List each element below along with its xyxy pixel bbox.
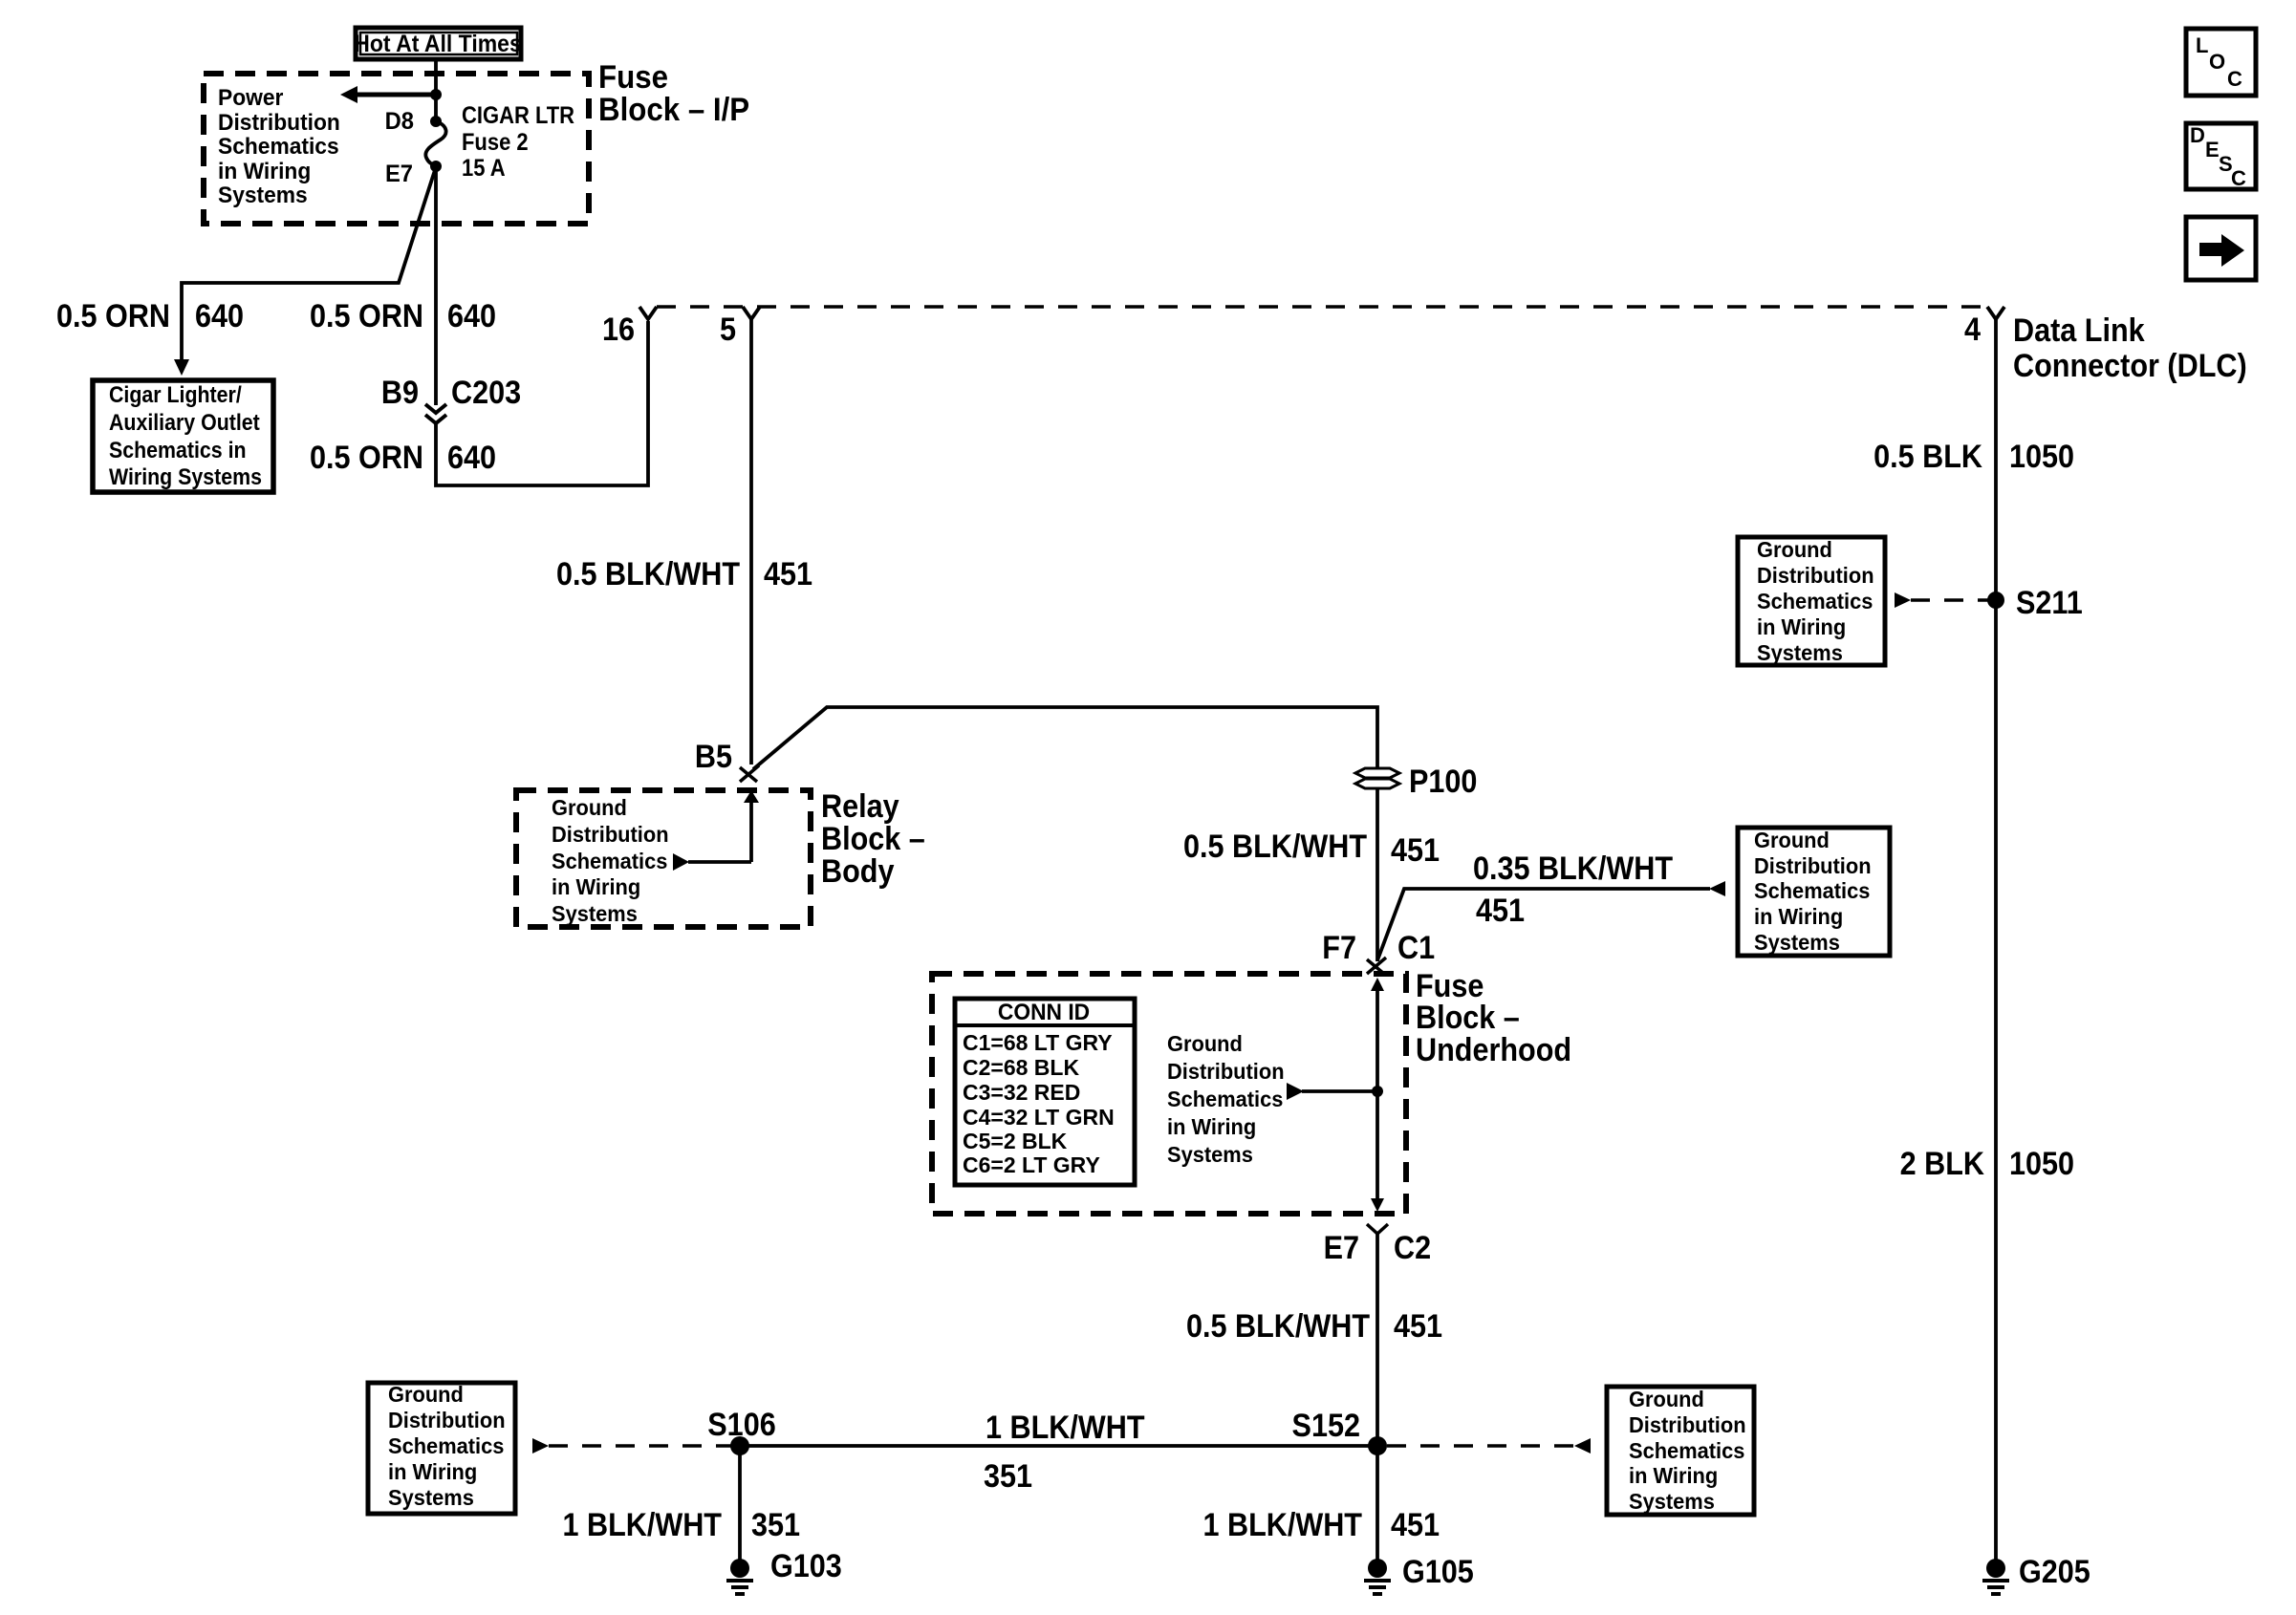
ground distribution reference box (right of 0.35 branch)	[1738, 828, 1890, 956]
text: Ground Distribution Schematics in Wiring Systems (0.35 box)	[1754, 828, 1872, 955]
dashed wire: left box to S106	[549, 1444, 731, 1448]
wire: P100 down to C1	[1375, 788, 1379, 961]
svg-text:Schematics: Schematics	[218, 133, 339, 159]
text: Ground Distribution Schematics in Wiring Systems (left box)	[388, 1382, 506, 1510]
svg-text:O: O	[2209, 50, 2225, 74]
svg-text:C2: C2	[1394, 1230, 1431, 1266]
wire: S106 down to G103	[738, 1446, 742, 1561]
svg-text:Block – I/P: Block – I/P	[598, 91, 749, 128]
junction node on C1 wire	[1372, 1086, 1383, 1097]
pin label 16	[602, 312, 635, 348]
label 1 BLK/WHT (S106-S152)	[986, 1410, 1145, 1446]
svg-text:in Wiring: in Wiring	[218, 158, 311, 183]
wire: 0.35 branch to ground distribution reference	[1377, 889, 1710, 960]
svg-text:Wiring Systems: Wiring Systems	[109, 463, 262, 489]
power distribution reference box (dashed)	[204, 74, 589, 224]
svg-text:Systems: Systems	[552, 901, 638, 926]
jump arrow icon box	[2186, 217, 2256, 280]
svg-text:CONN ID: CONN ID	[998, 999, 1090, 1024]
svg-text:C4=32 LT GRN: C4=32 LT GRN	[963, 1105, 1115, 1130]
svg-text:Cigar Lighter/: Cigar Lighter/	[109, 381, 242, 407]
svg-text:4: 4	[1964, 312, 1981, 348]
svg-text:0.5 BLK: 0.5 BLK	[1874, 439, 1982, 475]
svg-text:Systems: Systems	[1754, 930, 1840, 955]
svg-text:Schematics: Schematics	[1167, 1087, 1283, 1111]
svg-text:Fuse 2: Fuse 2	[462, 129, 529, 156]
svg-text:15 A: 15 A	[462, 155, 506, 182]
svg-text:S211: S211	[2016, 585, 2083, 621]
svg-text:16: 16	[602, 312, 635, 348]
label 0.5 BLK (pin4 wire)	[1874, 439, 1982, 475]
svg-text:Distribution: Distribution	[552, 822, 669, 847]
svg-text:G105: G105	[1402, 1554, 1474, 1590]
svg-text:Body: Body	[821, 853, 894, 890]
CONN ID table	[953, 999, 1137, 1185]
svg-text:Systems: Systems	[1757, 640, 1843, 665]
pin label F7	[1322, 930, 1356, 966]
svg-text:0.5 ORN: 0.5 ORN	[310, 298, 423, 334]
connector C1 symbol (female chevron)	[1367, 958, 1386, 974]
svg-text:0.5 BLK/WHT: 0.5 BLK/WHT	[556, 556, 740, 592]
svg-text:Ground: Ground	[552, 795, 627, 820]
svg-text:640: 640	[195, 298, 244, 334]
label 1 BLK/WHT (to G105)	[1202, 1507, 1362, 1543]
svg-text:Hot At All Times: Hot At All Times	[354, 31, 521, 57]
svg-text:Distribution: Distribution	[218, 109, 340, 135]
svg-text:CIGAR LTR: CIGAR LTR	[462, 102, 574, 129]
cigar lighter reference box	[93, 380, 273, 492]
label 2 BLK (lower pin4 wire)	[1900, 1146, 1985, 1182]
svg-text:640: 640	[447, 440, 496, 476]
label 1050 (lower pin4 wire)	[2009, 1146, 2074, 1182]
pin label 5	[720, 312, 736, 348]
label G103	[770, 1548, 842, 1584]
svg-text:0.5 ORN: 0.5 ORN	[56, 298, 170, 334]
svg-text:in Wiring: in Wiring	[1754, 904, 1843, 929]
wire: E7 down to connector C203	[434, 166, 438, 405]
wire: S152 down to G105	[1375, 1446, 1379, 1561]
left ground distribution reference box	[368, 1383, 515, 1514]
pin label D8	[385, 108, 414, 135]
svg-text:B9: B9	[381, 375, 419, 411]
svg-text:Schematics: Schematics	[1757, 589, 1873, 614]
label 451 (pin5 wire)	[764, 556, 812, 592]
svg-text:S152: S152	[1292, 1408, 1360, 1444]
label S211	[2016, 585, 2083, 621]
label 0.5 BLK/WHT (above C1)	[1183, 829, 1367, 865]
wire: hot feed from box to fuse	[434, 59, 438, 121]
svg-text:Underhood: Underhood	[1416, 1032, 1571, 1068]
arrow: feed to power distribution schematics	[340, 86, 436, 103]
svg-text:0.5 BLK/WHT: 0.5 BLK/WHT	[1183, 829, 1367, 865]
svg-text:Distribution: Distribution	[1629, 1412, 1746, 1437]
label 451 (above S152)	[1394, 1308, 1442, 1345]
svg-text:Ground: Ground	[1754, 828, 1830, 852]
svg-text:Ground: Ground	[1757, 537, 1832, 562]
svg-text:in Wiring: in Wiring	[1167, 1114, 1256, 1139]
svg-text:351: 351	[984, 1458, 1032, 1495]
arrow down to cigar lighter reference	[174, 359, 189, 376]
connector label C2	[1394, 1230, 1431, 1266]
label 0.35 BLK/WHT	[1473, 851, 1673, 887]
svg-text:Connector (DLC): Connector (DLC)	[2013, 348, 2247, 384]
pin label B9	[381, 375, 419, 411]
label G205	[2019, 1554, 2090, 1590]
svg-text:1050: 1050	[2009, 439, 2074, 475]
svg-text:Systems: Systems	[388, 1485, 474, 1510]
DLC connector dashed bus line	[657, 305, 1986, 309]
ground G105	[1364, 1559, 1391, 1594]
label 640 (left branch)	[195, 298, 244, 334]
LOC icon box	[2186, 29, 2256, 96]
svg-text:0.35 BLK/WHT: 0.35 BLK/WHT	[1473, 851, 1673, 887]
svg-text:1 BLK/WHT: 1 BLK/WHT	[1202, 1507, 1362, 1543]
label 0.5 ORN (left branch)	[56, 298, 170, 334]
label G105	[1402, 1554, 1474, 1590]
pin label B5	[695, 739, 732, 775]
svg-text:C: C	[2231, 166, 2246, 190]
svg-text:Auxiliary Outlet: Auxiliary Outlet	[109, 409, 260, 435]
text: Ground Distribution Schematics in Wiring Systems (S211 box)	[1757, 537, 1874, 665]
svg-text:D8: D8	[385, 108, 414, 135]
male pin arrow at C2 (down)	[1371, 1198, 1384, 1212]
svg-text:640: 640	[447, 298, 496, 334]
svg-text:Relay: Relay	[821, 788, 899, 825]
label 451 (to G105)	[1391, 1507, 1440, 1543]
connector label C1	[1397, 930, 1435, 966]
svg-text:Block –: Block –	[821, 821, 925, 857]
svg-text:C2=68 BLK: C2=68 BLK	[963, 1055, 1079, 1080]
DLC pin 16 fork	[639, 307, 657, 319]
ground distribution reference box (S211)	[1738, 537, 1885, 665]
splice node S106	[730, 1436, 749, 1455]
svg-text:Power: Power	[218, 84, 283, 110]
arrowhead toward ground distribution box (0.35 branch)	[1709, 881, 1725, 896]
svg-text:C: C	[2227, 67, 2242, 91]
label 1050 (pin4 wire)	[2009, 439, 2074, 475]
right ground distribution reference box (bottom)	[1607, 1387, 1754, 1515]
ground wire S106 to S152	[740, 1444, 1377, 1448]
DLC pin 5 fork	[743, 307, 760, 319]
ground G103	[726, 1559, 753, 1594]
label S106	[707, 1407, 775, 1443]
label 640 (fuse output)	[447, 298, 496, 334]
label: Fuse Block - I/P	[598, 58, 749, 128]
svg-text:2 BLK: 2 BLK	[1900, 1146, 1985, 1182]
connector C2 symbol (female chevron below box)	[1367, 1224, 1388, 1234]
svg-text:451: 451	[1391, 1507, 1440, 1543]
splice node S211	[1987, 592, 2004, 609]
svg-text:E: E	[2205, 138, 2220, 161]
ground G205	[1982, 1559, 2009, 1594]
grommet P100	[1355, 768, 1399, 788]
fuse block underhood dashed box	[932, 974, 1406, 1214]
connector B5 symbol (female chevron)	[740, 765, 759, 782]
label 351 (to G103)	[751, 1507, 800, 1543]
svg-text:F7: F7	[1322, 930, 1356, 966]
svg-text:C6=2 LT GRY: C6=2 LT GRY	[963, 1152, 1100, 1177]
wire: DLC pin 5 down to B5	[749, 319, 753, 764]
svg-text:E7: E7	[1324, 1230, 1359, 1266]
svg-text:Fuse: Fuse	[598, 58, 668, 96]
splice node S152	[1368, 1436, 1387, 1455]
label P100	[1409, 764, 1477, 800]
label 1 BLK/WHT (to G103)	[562, 1507, 722, 1543]
svg-text:Ground: Ground	[388, 1382, 464, 1407]
pin label E7 (underhood)	[1324, 1230, 1359, 1266]
svg-text:Systems: Systems	[218, 182, 308, 207]
svg-text:Data Link: Data Link	[2013, 312, 2146, 349]
svg-text:0.5 BLK/WHT: 0.5 BLK/WHT	[1186, 1308, 1370, 1345]
svg-text:G103: G103	[770, 1548, 842, 1584]
arrowhead toward S152 (right box)	[1574, 1438, 1591, 1453]
text: Ground Distribution Schematics in Wiring Systems (underhood box)	[1167, 1031, 1285, 1167]
label 351 (S106-S152)	[984, 1458, 1032, 1495]
svg-text:351: 351	[751, 1507, 800, 1543]
svg-text:B5: B5	[695, 739, 732, 775]
svg-text:C1: C1	[1397, 930, 1435, 966]
wire from schematics arrow to B5 pin	[688, 860, 751, 864]
svg-text:Distribution: Distribution	[1754, 853, 1872, 878]
svg-text:1050: 1050	[2009, 1146, 2074, 1182]
dashed wire: S211 box to splice	[1911, 598, 1988, 602]
dashed wire: S152 to right box	[1387, 1444, 1574, 1448]
svg-text:Distribution: Distribution	[1167, 1059, 1285, 1084]
inline connector C203 symbol	[425, 404, 446, 423]
svg-text:C3=32 RED: C3=32 RED	[963, 1080, 1080, 1105]
svg-text:Schematics: Schematics	[1754, 878, 1870, 903]
fuse text: CIGAR LTR Fuse 2 15 A	[462, 102, 574, 182]
svg-text:Ground: Ground	[1629, 1387, 1704, 1411]
svg-text:C1=68 LT GRY: C1=68 LT GRY	[963, 1030, 1113, 1055]
svg-text:Schematics: Schematics	[552, 849, 667, 873]
svg-text:451: 451	[1476, 893, 1525, 929]
svg-text:Ground: Ground	[1167, 1031, 1243, 1056]
svg-text:5: 5	[720, 312, 736, 348]
svg-text:Schematics in: Schematics in	[109, 437, 247, 463]
wire from schematics arrow to C1 wire	[1302, 1089, 1377, 1093]
label box: Hot At All Times	[354, 28, 521, 59]
label 640 (below C203)	[447, 440, 496, 476]
label: Relay Block - Body	[821, 788, 925, 890]
label 0.5 ORN (fuse output)	[310, 298, 423, 334]
svg-text:E7: E7	[385, 161, 413, 187]
wire: branch from E7 to cigar-lighter arrow	[182, 170, 435, 361]
svg-text:in Wiring: in Wiring	[388, 1459, 477, 1484]
pin label E7	[385, 161, 413, 187]
text: Ground Distribution Schematics in Wiring Systems (bottom right box)	[1629, 1387, 1746, 1514]
arrowhead from schematics text (relay box)	[673, 853, 689, 871]
svg-text:Distribution: Distribution	[1757, 563, 1874, 588]
label: Data Link Connector (DLC)	[2013, 312, 2247, 384]
svg-text:Systems: Systems	[1629, 1489, 1715, 1514]
label 451 (above C1)	[1391, 832, 1440, 869]
wire: C2 down to S152	[1375, 1234, 1379, 1446]
DESC icon box	[2186, 123, 2256, 190]
svg-text:451: 451	[1394, 1308, 1442, 1345]
svg-text:in Wiring: in Wiring	[552, 874, 640, 899]
svg-text:C5=2 BLK: C5=2 BLK	[963, 1129, 1068, 1153]
svg-text:0.5 ORN: 0.5 ORN	[310, 440, 423, 476]
arrowhead from schematics text (underhood box)	[1287, 1083, 1304, 1100]
text: Ground Distribution Schematics in Wiring Systems (relay box)	[552, 795, 669, 926]
relay block body dashed box	[516, 790, 811, 927]
wire: DLC pin 4 down to G205	[1994, 319, 1998, 1561]
svg-text:D: D	[2190, 123, 2205, 147]
svg-text:451: 451	[764, 556, 812, 592]
pin label 4	[1964, 312, 1981, 348]
svg-text:Schematics: Schematics	[388, 1433, 504, 1458]
connector label C203	[451, 375, 521, 411]
DLC pin 4 fork	[1987, 307, 2004, 319]
svg-text:L: L	[2196, 33, 2208, 57]
label 0.5 BLK/WHT (pin5 wire)	[556, 556, 740, 592]
svg-text:G205: G205	[2019, 1554, 2090, 1590]
svg-text:Schematics: Schematics	[1629, 1438, 1744, 1463]
male pin arrow at B5 into relay block	[744, 790, 759, 862]
svg-text:Block –: Block –	[1416, 1000, 1520, 1036]
wire: C203 to DLC pin 16	[436, 321, 648, 485]
text: Power Distribution Schematics in Wiring Systems	[218, 84, 340, 207]
arrowhead from left box	[532, 1438, 549, 1453]
fuse F2 (CIGAR LTR)	[425, 116, 445, 172]
label 0.5 ORN (below C203)	[310, 440, 423, 476]
label 451 (0.35 branch)	[1476, 893, 1525, 929]
svg-text:451: 451	[1391, 832, 1440, 869]
svg-text:C203: C203	[451, 375, 521, 411]
text: Cigar Lighter/Auxiliary Outlet Schematics in Wiring Systems	[109, 381, 262, 489]
svg-text:in Wiring: in Wiring	[1757, 614, 1846, 639]
junction node	[430, 89, 442, 100]
label S152	[1292, 1408, 1360, 1444]
svg-text:Systems: Systems	[1167, 1142, 1253, 1167]
arrowhead from S211 box	[1895, 592, 1911, 608]
label: Fuse Block - Underhood	[1416, 968, 1571, 1068]
male pin arrow at C1 into underhood block	[1371, 978, 1384, 1200]
svg-text:Distribution: Distribution	[388, 1408, 506, 1432]
svg-text:in Wiring: in Wiring	[1629, 1463, 1718, 1488]
svg-text:1 BLK/WHT: 1 BLK/WHT	[562, 1507, 722, 1543]
svg-text:1 BLK/WHT: 1 BLK/WHT	[986, 1410, 1145, 1446]
svg-text:P100: P100	[1409, 764, 1477, 800]
label 0.5 BLK/WHT (above S152)	[1186, 1308, 1370, 1345]
wire: B5 diagonal up to horizontal run toward P100	[753, 707, 1377, 770]
